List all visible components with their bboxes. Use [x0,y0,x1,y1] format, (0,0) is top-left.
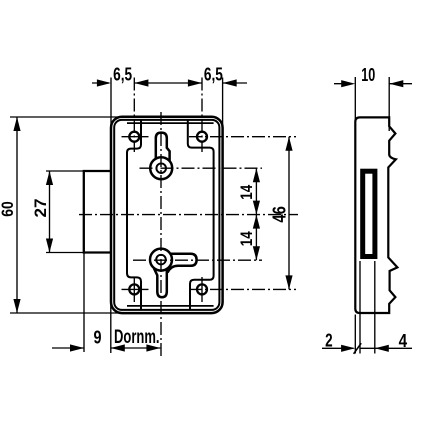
centerline horizontal top screws right and extension [189,136,296,138]
screw hole top-left [129,132,139,142]
extension line 60 top [10,116,124,118]
centerline horizontal bottom screws cross left [122,288,149,290]
dimension 9 line left segment [52,347,84,349]
arrow 27 bottom [46,239,53,253]
arrow 46 top [285,137,292,151]
dimension 6,5 left: line and arrows [92,82,109,84]
arrow 10 right [389,80,403,87]
extension line bolt right bottom [374,261,376,354]
front view inner contour [114,120,219,310]
arrow 60 top [13,117,20,131]
dimension 60: vertical line [16,117,18,313]
arrow 14 lower bottom [253,246,260,260]
svg-text:6,5: 6,5 [204,64,223,84]
extension line 27 top (bolt top extended) [46,170,84,172]
arrow 14 upper top [253,168,260,182]
svg-text:60: 60 [0,201,17,217]
bottom keyhole vertical slot down [154,269,167,298]
cover plate top edge [127,122,214,124]
side view bolt (thick) [363,171,375,256]
extension line side body left bottom [354,315,356,354]
dimension 27: vertical line [49,171,51,253]
svg-text:6,5: 6,5 [113,64,132,84]
arrow 46 bottom [285,275,292,289]
arrow 14 mid down [253,215,260,229]
centerline vertical key axis [160,112,162,358]
cover plate right edge with corner pockets [188,121,214,310]
arrow 6,5-right outer left [188,79,202,86]
svg-text:4: 4 [399,331,408,351]
arrow 9 left [70,344,84,351]
slash termination for 2 [354,343,362,354]
dimension 2/4 side bottom line [322,347,412,349]
svg-text:46: 46 [269,206,290,223]
svg-text:27: 27 [31,199,50,218]
arrow 2 pointing right [341,345,355,352]
centerline vertical left screw column [133,78,135,153]
cover plate left edge with corner pockets [127,121,141,310]
arrow 6,5-right outer right [223,79,237,86]
screw hole top-right [197,132,207,142]
extension line body left edge bottom [110,299,112,353]
centerline vertical bottom-right screw cross [201,277,203,302]
arrow Dornm right pointing right [146,344,160,351]
svg-text:10: 10 [361,65,375,85]
svg-text:14: 14 [238,184,256,200]
arrow 27 top [46,171,53,185]
extension line 27 bottom (bolt bottom extended) [46,252,84,254]
top keyhole slot [156,133,170,161]
screw hole bottom-left [129,284,139,294]
side view body outline [355,117,397,313]
bolt box protruding left [84,171,111,253]
dimension 46: vertical line [288,137,290,290]
centerline horizontal top key extension [140,167,263,169]
centerline vertical right screw column [201,78,203,153]
cover plate bottom edge [127,305,214,307]
extension line bolt face bottom [83,253,85,352]
bottom keyhole outer circle [150,249,172,271]
top keyhole outer circle [150,157,172,179]
bottom keyhole inner circle [156,255,166,265]
svg-text:9: 9 [94,328,102,348]
centerline horizontal main axis [79,214,298,216]
extension line side right [388,77,390,131]
front view outer contour [111,117,223,313]
extension line body left edge top [110,78,112,131]
dimension 14 upper / 14 lower: vertical line [255,168,257,260]
svg-text:14: 14 [238,231,256,247]
centerline horizontal bottom screws right and extension [189,288,296,290]
dimension 10 side view: line [334,83,412,85]
centerline horizontal top screws cross left [122,136,149,138]
screw hole bottom-right [197,284,207,294]
arrow 14 mid up [253,201,260,215]
arrow 10 left [341,80,355,87]
arrow 4 pointing left [375,345,389,352]
extension line side left [354,77,356,131]
svg-text:Dornm.: Dornm. [114,327,160,348]
dimension 9 / Dornm. line right segment [111,347,161,349]
extension line bolt left bottom [359,261,361,354]
arrow 9 right pointing left [111,344,125,351]
arrow 60 bottom [13,299,20,313]
centerline vertical bottom-left screw cross [133,277,135,302]
svg-text:2: 2 [325,330,333,350]
arrow 6,5-left outer left [97,79,111,86]
extension line 60 bottom [10,312,124,314]
arrow 6,5-left outer right [134,79,148,86]
centerline horizontal bottom key extension [133,259,262,261]
extension line body right edge top [222,78,224,131]
bottom keyhole horizontal slot to right [168,254,197,273]
top keyhole inner circle [156,163,166,173]
